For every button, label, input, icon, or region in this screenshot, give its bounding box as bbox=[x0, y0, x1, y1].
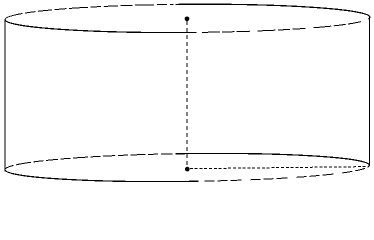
left side of cylinder bbox=[4, 20, 6, 172]
top ellipse upper-left arc (dashed, hidden edge) bbox=[5, 4, 173, 19]
cylinder diagram bbox=[0, 0, 374, 190]
bottom ellipse lower-left arc (solid front rim) bbox=[5, 170, 198, 182]
axis of cylinder (dashed vertical) bbox=[186, 21, 188, 167]
bottom ellipse lower-right arc (dashed, hidden edge) bbox=[199, 165, 370, 181]
radius of base (dashed) bbox=[190, 167, 368, 169]
top ellipse lower-left arc (solid front rim) bbox=[5, 20, 196, 33]
top center dot bbox=[185, 16, 190, 21]
bottom ellipse upper-right arc (solid) bbox=[176, 153, 370, 165]
top ellipse upper-right arc (solid) bbox=[175, 4, 370, 17]
bottom ellipse upper-left arc (dashed, hidden edge) bbox=[5, 154, 173, 170]
top ellipse lower-right arc (dashed, hidden edge) bbox=[197, 17, 370, 32]
right side of cylinder bbox=[369, 17, 371, 166]
bottom center dot bbox=[185, 167, 190, 172]
